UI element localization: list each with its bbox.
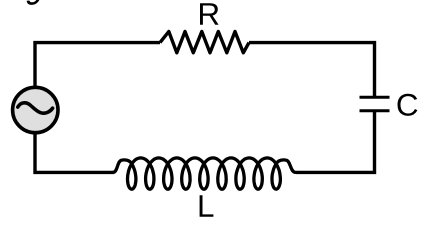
capacitor C1 bottom plate <box>360 109 390 112</box>
inductor L1 coil <box>113 158 296 189</box>
label R <box>200 3 219 25</box>
label C <box>398 94 418 116</box>
wire: bottom wire left segment + bottom-left corner + left vertical lower <box>35 133 114 172</box>
cropped text remnant (descender of y) <box>27 0 40 5</box>
wire: left vertical upper + top-left corner + top wire left segment <box>35 43 160 87</box>
wire: top wire right segment + top-right corner + right vertical upper <box>249 43 375 96</box>
wire: right vertical lower + bottom-right corner + bottom wire right segment <box>296 112 375 172</box>
label L <box>200 195 214 217</box>
capacitor C1 top plate <box>360 96 390 99</box>
AC source V1 circle <box>13 87 58 132</box>
AC source V1 sine wave <box>18 103 53 113</box>
resistor R1 zigzag <box>160 32 249 53</box>
